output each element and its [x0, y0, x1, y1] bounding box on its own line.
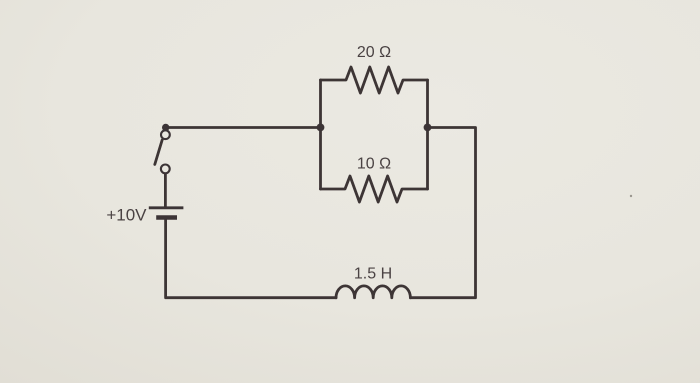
- wire from switch to node A: [166, 126, 321, 129]
- wire bottom rail and left rail up to battery: [166, 220, 336, 298]
- wire left vertical of parallel block: [319, 80, 322, 189]
- wire from switch lower terminal to battery: [164, 174, 167, 206]
- resistor R2 10 ohm bottom branch: [321, 176, 428, 202]
- battery V1 short plate: [156, 215, 177, 220]
- wire right vertical of parallel block: [426, 80, 429, 189]
- dust speck: [630, 195, 632, 197]
- svg-text:20 Ω: 20 Ω: [357, 44, 391, 61]
- svg-text:+10V: +10V: [106, 206, 147, 225]
- inductor L1 1.5 H: [336, 286, 410, 298]
- svg-text:1.5 H: 1.5 H: [354, 265, 392, 282]
- switch lower terminal circle: [161, 165, 170, 174]
- battery V1 long plate: [149, 206, 184, 209]
- svg-text:10 Ω: 10 Ω: [357, 155, 391, 172]
- resistor R1 20 ohm top branch: [321, 67, 428, 93]
- node A junction dot: [317, 124, 325, 132]
- wire from node B right and down right side: [410, 128, 475, 298]
- node B junction dot: [424, 124, 432, 132]
- switch top junction dot: [162, 124, 169, 131]
- switch blade: [155, 140, 162, 165]
- switch upper terminal circle: [161, 130, 170, 139]
